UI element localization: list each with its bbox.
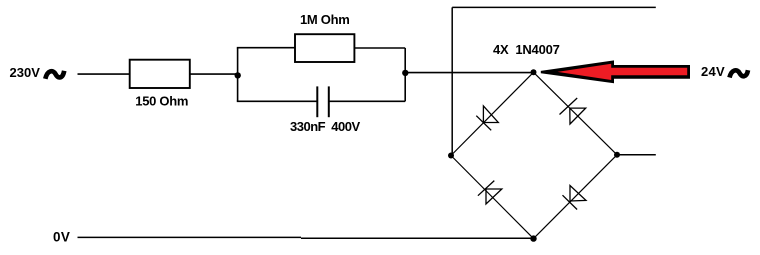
- svg-text:230V: 230V: [10, 65, 41, 80]
- wire bottom branch right: [329, 100, 405, 102]
- wire parallel left vertical: [237, 48, 239, 102]
- wire input: [78, 73, 130, 75]
- diode D1 triangle: [483, 106, 498, 123]
- wire bridge arm bottom-left: [451, 156, 534, 239]
- svg-text:4X 1N4007: 4X 1N4007: [493, 42, 560, 57]
- annotation arrow 24V outline: [541, 60, 690, 83]
- wire top branch right: [354, 47, 405, 49]
- wire bridge arm top-right: [534, 72, 618, 155]
- resistor R1 150 Ohm: [130, 60, 190, 88]
- node bridge left dot: [448, 153, 454, 159]
- annotation arrow 24V red fill: [558, 64, 688, 80]
- diode D4 cathode bar: [563, 195, 578, 209]
- node A junction dot: [235, 72, 241, 78]
- AC tilde symbol left: [45, 71, 64, 79]
- wire DC output top horizontal: [452, 6, 656, 8]
- resistor R2 1M Ohm: [295, 34, 354, 62]
- wire parallel right vertical: [404, 48, 406, 101]
- node B junction dot: [402, 70, 408, 76]
- diode D1 cathode bar: [476, 116, 491, 131]
- node bridge bottom dot: [530, 235, 536, 241]
- wire bottom branch left: [237, 100, 317, 102]
- wire node B to bridge top: [405, 72, 533, 74]
- svg-text:150 Ohm: 150 Ohm: [135, 94, 188, 109]
- diode D2 triangle: [570, 108, 586, 124]
- node bridge right dot: [614, 152, 620, 158]
- diode D4 triangle: [570, 186, 586, 202]
- diode D3 cathode bar: [478, 181, 494, 196]
- AC tilde symbol right: [730, 70, 749, 77]
- diode D2 cathode bar: [560, 98, 578, 115]
- node bridge top dot: [531, 69, 537, 75]
- wire bridge right output: [617, 154, 656, 156]
- wire R1 to node A: [190, 73, 238, 75]
- svg-text:330nF 400V: 330nF 400V: [290, 119, 360, 134]
- wire DC output left vertical: [451, 7, 453, 155]
- wire 0V left segment: [78, 236, 302, 238]
- wire bridge arm bottom-right: [534, 155, 618, 239]
- wire bridge arm top-left: [451, 72, 534, 155]
- capacitor C1 plate right: [328, 86, 330, 117]
- diode D3 triangle: [486, 189, 502, 204]
- svg-text:24V: 24V: [701, 64, 725, 79]
- wire top branch left: [237, 47, 295, 49]
- svg-text:1M Ohm: 1M Ohm: [300, 12, 349, 27]
- capacitor C1 plate left: [316, 86, 318, 117]
- svg-text:0V: 0V: [53, 230, 70, 245]
- wire 0V right segment: [301, 237, 534, 239]
